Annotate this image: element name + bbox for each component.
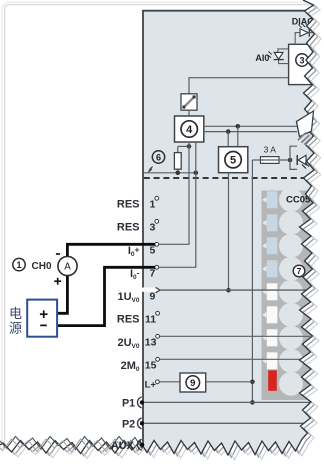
power supply + terminal <box>40 313 48 315</box>
svg-text:3: 3 <box>299 55 304 65</box>
svg-text:A: A <box>64 262 71 273</box>
svg-text:2M0: 2M0 <box>121 360 140 373</box>
svg-text:5: 5 <box>230 155 236 167</box>
circled 5 <box>225 152 241 168</box>
circled 6 <box>152 151 164 163</box>
svg-text:13: 13 <box>145 337 157 349</box>
terminal 3 pin <box>155 219 159 223</box>
wire supply - to terminal 7 <box>57 267 155 325</box>
circled 3 <box>296 54 308 66</box>
circled 7 <box>293 265 305 277</box>
P2 pin <box>137 418 141 429</box>
PWR LED <box>298 155 306 164</box>
terminal 7 pin <box>155 265 159 269</box>
svg-text:I0+: I0+ <box>128 245 140 258</box>
svg-text:1UV0: 1UV0 <box>117 291 139 304</box>
DIAG LED D2 <box>300 29 308 37</box>
AI0 LED loop <box>278 49 289 53</box>
shunt resistor R1 <box>177 146 179 152</box>
backplane bus connector wedge (over tear) <box>297 111 314 137</box>
svg-text:源: 源 <box>9 321 22 336</box>
circled 9 <box>186 376 200 390</box>
svg-text:RES: RES <box>117 222 140 234</box>
wire L+ to U9 <box>159 381 180 383</box>
wire terminal 15 to right <box>159 358 310 360</box>
circled 4 <box>181 121 197 137</box>
earth arrow symbol <box>149 167 153 172</box>
wire U4 to terminal 7 <box>158 142 196 267</box>
wire fuse down to L+ and P1 <box>251 160 253 402</box>
wire stubs U5 to bus <box>227 132 229 147</box>
svg-text:3: 3 <box>149 222 155 234</box>
PWR LED bracket <box>290 146 297 169</box>
junction dot resistor bottom <box>176 171 181 176</box>
svg-text:1: 1 <box>149 199 155 211</box>
white interruption wedge terminal 9 <box>138 288 156 292</box>
AUX pin (over tear) <box>137 439 141 450</box>
svg-text:9: 9 <box>190 378 195 389</box>
bus line upper <box>204 125 297 127</box>
fuse F1 3A <box>252 159 260 161</box>
chevron terminal 9 <box>156 287 160 292</box>
terminal 1 pin <box>155 196 159 200</box>
wire P2 to right <box>143 422 306 424</box>
svg-text:3 A: 3 A <box>264 145 277 155</box>
terminal 13 pin <box>156 334 160 338</box>
wire terminal 9 to right <box>160 289 310 291</box>
power supply - terminal <box>40 324 47 326</box>
wire P1 to right <box>143 401 310 403</box>
svg-text:7: 7 <box>149 268 155 280</box>
wire U4 to terminal 5 <box>158 142 189 244</box>
plus sign at ammeter <box>54 280 61 282</box>
svg-text:7: 7 <box>297 266 302 276</box>
wire U4 to isolation box <box>188 110 190 116</box>
isolation barrier box <box>181 94 197 110</box>
junction dot P1 line <box>250 400 255 405</box>
terminal block CC0x photo <box>262 191 315 401</box>
svg-text:CH0: CH0 <box>32 261 52 272</box>
junction dot bus upper <box>236 124 241 129</box>
ammeter M1 <box>58 256 77 275</box>
bus line lower <box>204 131 297 133</box>
AI0 LED D1 <box>274 52 283 59</box>
ground reference line <box>144 172 196 174</box>
svg-text:AI0: AI0 <box>255 53 269 63</box>
svg-text:9: 9 <box>149 290 155 302</box>
terminal 5 pin <box>155 242 159 246</box>
svg-text:L+: L+ <box>145 380 157 391</box>
P1 pin <box>137 397 141 408</box>
svg-text:RES: RES <box>117 314 140 326</box>
module body (analog input module, torn right/bottom) <box>143 11 315 452</box>
junction dot ground/term7 <box>194 171 199 176</box>
svg-text:P1: P1 <box>122 397 135 409</box>
svg-text:P2: P2 <box>122 418 135 430</box>
wire ammeter to supply + <box>57 276 67 314</box>
terminal 11 pin <box>156 311 160 315</box>
backplane bus connector wedge <box>297 112 314 137</box>
junction dot bus lower <box>226 129 231 134</box>
svg-text:1: 1 <box>16 260 21 270</box>
junction dot fuse/LED <box>288 158 293 163</box>
svg-text:11: 11 <box>145 314 156 326</box>
op box U5 <box>219 147 248 173</box>
junction dot L+ line <box>250 380 255 385</box>
svg-text:5: 5 <box>149 245 155 257</box>
circled 1 <box>13 258 25 270</box>
svg-text:电: 电 <box>9 306 22 321</box>
svg-text:RES: RES <box>117 199 140 211</box>
svg-text:I0-: I0- <box>130 268 140 281</box>
AUX pin <box>137 439 141 450</box>
minus sign at ammeter <box>56 253 60 255</box>
wire terminal 13 to right <box>159 335 310 337</box>
power supply box <box>27 300 57 337</box>
wire U5 down to terminal 9 line <box>228 173 230 291</box>
svg-text:6: 6 <box>156 152 161 162</box>
dashed isolation line <box>144 177 312 179</box>
wire top bus from isolation box to U3 <box>189 78 289 94</box>
terminal L+ pin <box>156 380 160 384</box>
PWR LED (over tear) <box>298 155 306 164</box>
svg-text:4: 4 <box>186 124 193 136</box>
wire U9 to power rail <box>206 381 253 383</box>
torn edge extra layer strokes (left white area) <box>0 435 297 454</box>
wire ammeter to terminal 5 <box>67 244 155 256</box>
op box U3 <box>289 44 313 84</box>
svg-text:2UV0: 2UV0 <box>117 337 139 350</box>
op box U9 <box>180 373 206 392</box>
junction dot U5/term9 <box>226 288 231 293</box>
terminal 15 pin <box>156 357 160 361</box>
junction dot resistor top <box>187 144 192 149</box>
svg-text:AUX: AUX <box>111 440 135 452</box>
svg-text:15: 15 <box>145 360 157 372</box>
DIAG LED wire <box>295 33 300 45</box>
op box U4 (A/D converter) <box>175 116 204 142</box>
